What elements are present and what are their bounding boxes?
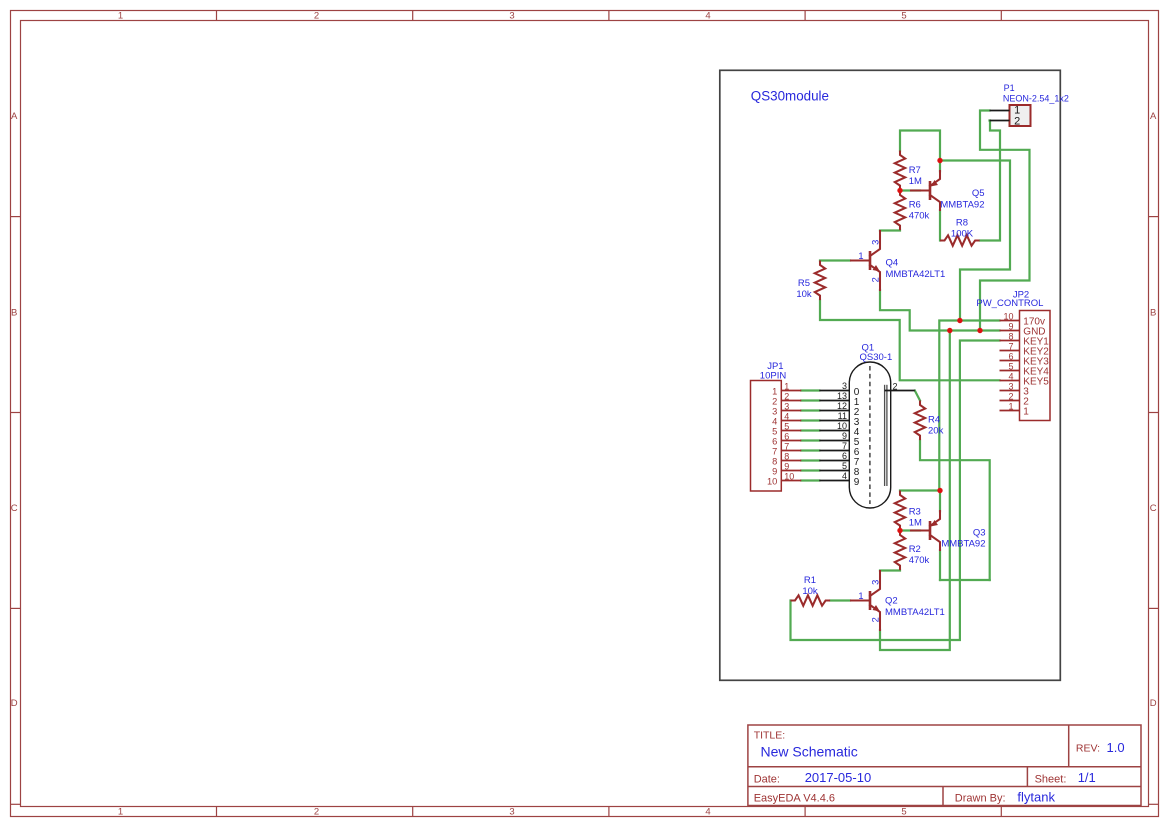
svg-text:MMBTA92: MMBTA92	[941, 539, 985, 550]
svg-text:D: D	[1150, 698, 1157, 709]
svg-text:3: 3	[509, 10, 514, 21]
svg-text:8: 8	[772, 456, 777, 466]
svg-text:3: 3	[870, 580, 880, 585]
svg-text:1: 1	[784, 381, 789, 391]
svg-text:MMBTA42LT1: MMBTA42LT1	[885, 607, 945, 618]
wire	[831, 599, 851, 601]
svg-text:1M: 1M	[909, 176, 922, 187]
module boundary QS30module	[720, 70, 1061, 680]
transistor Q5	[910, 171, 985, 210]
svg-text:3: 3	[772, 406, 777, 416]
svg-text:2: 2	[1008, 391, 1013, 401]
svg-text:2: 2	[893, 381, 898, 391]
svg-text:9: 9	[772, 466, 777, 476]
svg-text:5: 5	[784, 421, 789, 431]
svg-text:7: 7	[1008, 341, 1013, 351]
svg-text:6: 6	[1008, 351, 1013, 361]
svg-text:Sheet:: Sheet:	[1035, 773, 1067, 785]
resistor R4	[915, 401, 944, 441]
svg-text:4: 4	[772, 416, 777, 426]
svg-text:10PIN: 10PIN	[760, 371, 787, 382]
connector P1	[990, 83, 1069, 127]
svg-text:1/1: 1/1	[1078, 770, 1096, 785]
wire	[801, 439, 819, 441]
svg-text:1: 1	[118, 807, 123, 818]
resistor R8	[940, 217, 980, 245]
svg-text:1: 1	[858, 251, 863, 261]
wire	[980, 111, 1030, 331]
wire	[939, 161, 941, 172]
wire	[940, 579, 990, 581]
svg-text:5: 5	[901, 807, 906, 818]
wire	[920, 441, 990, 581]
svg-text:QS30module: QS30module	[751, 89, 829, 104]
svg-text:Q4: Q4	[886, 258, 899, 269]
svg-text:7: 7	[784, 441, 789, 451]
svg-text:20k: 20k	[928, 426, 944, 437]
connector JP1	[751, 361, 802, 491]
svg-text:R7: R7	[909, 165, 921, 176]
wire	[801, 459, 819, 461]
transistor Q3	[910, 511, 986, 550]
junction	[897, 528, 902, 533]
svg-text:C: C	[1150, 503, 1157, 514]
svg-text:10: 10	[784, 471, 794, 481]
svg-text:9: 9	[842, 431, 847, 441]
svg-text:2: 2	[784, 391, 789, 401]
svg-text:13: 13	[837, 391, 847, 401]
svg-text:R2: R2	[909, 544, 921, 555]
svg-text:R6: R6	[909, 200, 921, 211]
svg-text:EasyEDA V4.4.6: EasyEDA V4.4.6	[754, 793, 835, 805]
svg-text:100K: 100K	[951, 229, 974, 240]
svg-text:1: 1	[858, 591, 863, 601]
svg-text:5: 5	[901, 10, 906, 21]
svg-text:2: 2	[314, 807, 319, 818]
wire	[801, 419, 819, 421]
junction	[937, 488, 942, 493]
wire	[915, 391, 920, 401]
transistor Q4	[850, 231, 945, 290]
svg-text:R1: R1	[804, 575, 816, 586]
junction	[897, 188, 902, 193]
svg-text:flytank: flytank	[1017, 789, 1055, 804]
svg-text:5: 5	[772, 426, 777, 436]
svg-text:TITLE:: TITLE:	[754, 730, 786, 742]
svg-text:2: 2	[314, 10, 319, 21]
junction	[957, 318, 962, 323]
svg-text:NEON-2.54_1x2: NEON-2.54_1x2	[1003, 93, 1069, 103]
svg-text:QS30-1: QS30-1	[860, 352, 893, 363]
svg-text:1.0: 1.0	[1107, 740, 1125, 755]
wire	[801, 429, 819, 431]
wire	[900, 189, 920, 191]
svg-text:3: 3	[842, 381, 847, 391]
svg-text:7: 7	[842, 441, 847, 451]
wire	[791, 341, 1000, 641]
svg-text:R8: R8	[956, 217, 968, 228]
svg-text:A: A	[11, 111, 18, 122]
svg-text:Q2: Q2	[885, 596, 898, 607]
wire	[820, 259, 850, 261]
wire	[940, 161, 1010, 321]
svg-text:P1: P1	[1004, 83, 1015, 93]
svg-text:10: 10	[1003, 311, 1013, 321]
svg-text:11: 11	[838, 411, 847, 421]
svg-text:R5: R5	[798, 278, 810, 289]
wire	[801, 409, 819, 411]
svg-text:REV:: REV:	[1076, 742, 1100, 754]
wire	[820, 301, 1000, 381]
resistor R1	[791, 575, 831, 606]
wire	[801, 399, 819, 401]
svg-text:R4: R4	[928, 415, 940, 426]
svg-text:A: A	[1150, 111, 1157, 122]
svg-text:4: 4	[1008, 371, 1013, 381]
svg-text:1: 1	[772, 386, 777, 396]
svg-text:10: 10	[767, 476, 777, 486]
resistor R6	[895, 191, 930, 231]
svg-text:Drawn By:: Drawn By:	[955, 793, 1006, 805]
wire	[880, 569, 900, 571]
junction	[947, 328, 952, 333]
svg-text:1: 1	[1008, 401, 1013, 411]
svg-text:7: 7	[772, 446, 777, 456]
svg-text:10k: 10k	[802, 586, 818, 597]
svg-text:3: 3	[870, 240, 880, 245]
wire	[880, 290, 1000, 331]
svg-text:6: 6	[842, 451, 847, 461]
svg-text:470k: 470k	[909, 211, 930, 222]
wire	[900, 131, 940, 161]
svg-text:12: 12	[837, 401, 847, 411]
svg-text:2: 2	[871, 617, 881, 622]
junction	[937, 158, 942, 163]
svg-text:6: 6	[772, 436, 777, 446]
wire	[801, 389, 819, 391]
wire	[939, 210, 941, 240]
svg-text:10: 10	[837, 421, 847, 431]
svg-text:B: B	[1150, 307, 1156, 318]
wire	[900, 529, 920, 531]
svg-text:3: 3	[1008, 381, 1013, 391]
svg-text:4: 4	[705, 807, 710, 818]
svg-text:Date:: Date:	[754, 773, 780, 785]
svg-text:Q5: Q5	[972, 188, 985, 199]
svg-text:C: C	[11, 503, 18, 514]
svg-text:1: 1	[1023, 406, 1029, 417]
svg-text:470k: 470k	[909, 555, 930, 566]
svg-text:4: 4	[784, 411, 789, 421]
resistor R2	[895, 531, 930, 571]
wire	[939, 321, 999, 491]
svg-text:New Schematic: New Schematic	[761, 744, 858, 760]
svg-text:9: 9	[784, 461, 789, 471]
svg-text:2: 2	[871, 277, 881, 282]
connector JP2	[976, 289, 1050, 420]
wire	[801, 479, 819, 481]
svg-text:4: 4	[842, 471, 847, 481]
svg-text:PW_CONTROL: PW_CONTROL	[976, 298, 1043, 309]
resistor R3	[895, 491, 922, 531]
wire	[801, 469, 819, 471]
svg-text:2: 2	[772, 396, 777, 406]
svg-text:3: 3	[509, 807, 514, 818]
svg-text:D: D	[11, 698, 18, 709]
svg-text:1M: 1M	[909, 518, 922, 529]
wire	[980, 121, 1000, 241]
svg-text:6: 6	[784, 431, 789, 441]
nixie tube Q1 QS30-1	[819, 343, 915, 509]
svg-text:8: 8	[784, 451, 789, 461]
svg-text:8: 8	[1008, 331, 1013, 341]
transistor Q2	[850, 571, 945, 630]
svg-text:Q3: Q3	[973, 527, 986, 538]
resistor R5	[796, 261, 825, 301]
svg-text:MMBTA92: MMBTA92	[940, 199, 984, 210]
svg-text:MMBTA42LT1: MMBTA42LT1	[886, 269, 946, 280]
svg-text:1: 1	[118, 10, 123, 21]
svg-text:9: 9	[1008, 321, 1013, 331]
svg-text:10k: 10k	[796, 289, 812, 300]
svg-text:4: 4	[705, 10, 710, 21]
resistor R7	[895, 151, 922, 191]
svg-text:R3: R3	[909, 507, 921, 518]
wire	[939, 550, 941, 580]
wire	[880, 229, 900, 231]
svg-text:9: 9	[854, 477, 860, 488]
wire	[880, 331, 950, 651]
svg-text:5: 5	[842, 461, 847, 471]
svg-text:2017-05-10: 2017-05-10	[805, 770, 872, 785]
wire	[900, 489, 940, 491]
wire	[801, 449, 819, 451]
svg-text:2: 2	[1014, 115, 1020, 127]
svg-text:3: 3	[784, 401, 789, 411]
wire	[939, 491, 941, 512]
svg-text:B: B	[11, 307, 17, 318]
junction	[977, 328, 982, 333]
svg-text:5: 5	[1008, 361, 1013, 371]
